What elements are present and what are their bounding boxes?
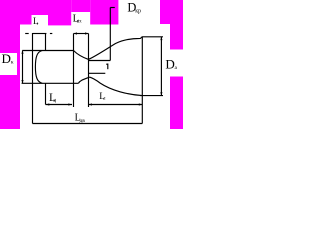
- svg-text:вх: вх: [77, 18, 82, 24]
- svg-text:дв: дв: [80, 118, 86, 124]
- svg-text:к: к: [11, 60, 14, 66]
- svg-text:D: D: [165, 56, 174, 71]
- svg-text:г: г: [37, 21, 39, 26]
- svg-text:кр: кр: [135, 8, 141, 14]
- svg-text:ц: ц: [53, 99, 56, 104]
- svg-text:D: D: [2, 51, 11, 66]
